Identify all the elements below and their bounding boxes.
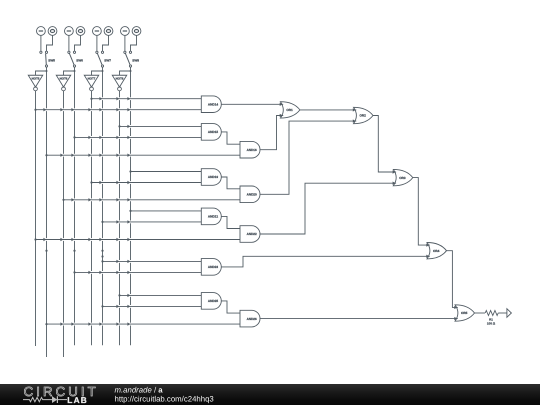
wire branch to NOT8 input	[120, 71, 131, 75]
wire hop at x=130.5	[127, 260, 130, 263]
node: branch to inverter NOT6	[74, 70, 76, 72]
junction on bus 8	[129, 170, 131, 172]
wire tap to AND19 in A	[131, 171, 202, 173]
junction on bus 7	[118, 294, 120, 296]
digital source "0" (input 4 low rail)	[132, 27, 141, 36]
switch SW7 (SPDT)	[96, 51, 111, 67]
wire from "0" source to switch throw 2	[75, 35, 81, 51]
wire hop at x=119.5	[116, 108, 119, 111]
wire tap to AND23 in A	[119, 260, 121, 263]
digital source "1" (input 1 high rail)	[37, 27, 46, 36]
svg-text:NOT5: NOT5	[32, 77, 40, 81]
wire hop at x=46.5	[43, 108, 46, 111]
wire hop at x=102.5	[99, 154, 102, 157]
output pin (digital probe)	[507, 309, 512, 318]
wire hop at x=102.5	[99, 136, 102, 139]
node: branch to inverter NOT7	[102, 70, 104, 72]
svg-text:NOT8: NOT8	[116, 77, 124, 81]
wire hop at x=91.5	[88, 154, 91, 157]
wire branch to NOT5 input	[36, 71, 47, 75]
wire from "1" source to switch throw 1	[40, 35, 42, 51]
wire OR1 output to OR2 input A	[300, 109, 356, 111]
wire NOT5 output down (bus 1)	[35, 91, 37, 346]
wire hop at x=91.5	[88, 271, 91, 274]
wire tap to AND14 in B	[46, 108, 48, 111]
svg-text:AND21: AND21	[208, 215, 218, 219]
wire tap to AND23 in B	[91, 271, 93, 274]
hop markers at OR1 inputs	[280, 103, 283, 106]
wire hop at x=119.5	[116, 271, 119, 274]
wire from "1" source to switch throw 1	[124, 35, 126, 51]
svg-text:SW6: SW6	[76, 59, 83, 63]
node: branch to inverter NOT8	[130, 70, 132, 72]
wire AND19 output to AND20 input A	[221, 177, 240, 189]
junction on bus 8	[129, 210, 131, 212]
wire hop at x=119.5	[116, 198, 119, 201]
wire hop at x=119.5	[116, 260, 119, 263]
node: branch to inverter NOT5	[46, 70, 48, 72]
svg-text:SW5: SW5	[48, 59, 55, 63]
wire tap to AND21 in A	[131, 210, 202, 212]
wire tap to AND16 in B	[63, 154, 65, 157]
AND gate AND26	[240, 310, 260, 327]
svg-text:AND16: AND16	[247, 148, 257, 152]
wire hop at x=130.5	[127, 220, 130, 223]
svg-text:LAB: LAB	[67, 395, 88, 405]
wire hop at x=119.5	[116, 181, 119, 184]
wire tap to AND15 in B	[91, 136, 93, 139]
wire tap to AND21 in B	[119, 221, 121, 224]
wire tap to AND22 in B	[46, 238, 48, 241]
wire hop at x=130.5	[127, 305, 130, 308]
digital source "1" (input 3 high rail)	[93, 27, 102, 36]
AND gate AND20	[240, 186, 260, 203]
wire tap to AND14 in A	[102, 97, 104, 100]
wire branch to NOT6 input	[64, 71, 75, 75]
svg-text:AND22: AND22	[247, 232, 257, 236]
wire AND14 output to OR1 input A	[221, 103, 283, 105]
svg-text:100 Ω: 100 Ω	[487, 321, 496, 325]
wire AND22 output to OR3 input B	[260, 183, 396, 234]
digital source "1" (input 4 high rail)	[121, 27, 130, 36]
wire hop at x=130.5	[127, 125, 130, 128]
wire hop at x=130.5	[127, 238, 130, 241]
OR gate OR1	[280, 102, 300, 118]
wire hop at x=63.5	[60, 238, 63, 241]
wire AND15 output to AND16 input A	[221, 132, 240, 144]
wire NOT8 output down (bus 7)	[119, 91, 121, 345]
inverter NOT6	[56, 75, 71, 91]
wire OR3 output to OR4 input A	[413, 178, 430, 246]
wire hop at x=130.5	[127, 97, 130, 100]
wire OR2 output to OR3 input A	[373, 116, 396, 173]
wire AND21 output to AND22 input A	[221, 216, 240, 228]
wire tap to AND20 in B	[74, 198, 76, 201]
svg-text:AND23: AND23	[208, 265, 218, 269]
svg-text:AND26: AND26	[247, 317, 257, 321]
wire OR4 output to OR5 input A	[447, 251, 458, 308]
wire switch pole down (bus 2)	[46, 67, 48, 357]
junction on bus 1	[34, 238, 36, 240]
hop markers at OR2 inputs	[353, 108, 356, 111]
node on bus 2	[45, 250, 47, 252]
wire hop at x=74.5	[71, 108, 74, 111]
CircuitLab logo	[23, 384, 99, 405]
wire hop at x=102.5	[99, 238, 102, 241]
wire hop at x=102.5	[99, 108, 102, 111]
switch SW8 (SPDT)	[124, 51, 139, 67]
wire hop at x=102.5	[99, 97, 102, 100]
wire hop at x=102.5	[99, 198, 102, 201]
svg-text:OR1: OR1	[286, 108, 293, 112]
AND gate AND25	[201, 293, 221, 310]
OR gate OR3	[393, 169, 413, 185]
OR gate OR2	[354, 107, 374, 123]
switch SW6 (SPDT)	[68, 51, 83, 67]
wire switch pole down (bus 8)	[130, 67, 132, 345]
svg-text:OR4: OR4	[433, 249, 440, 253]
AND gate AND14	[201, 96, 221, 113]
wire hop at x=102.5	[99, 322, 102, 325]
wire NOT6 output down (bus 3)	[63, 91, 65, 357]
AND gate AND15	[201, 124, 221, 141]
switch SW5 (SPDT)	[40, 51, 55, 67]
wire hop at x=74.5	[71, 238, 74, 241]
junction on bus 6	[101, 260, 103, 262]
junction on bus 4	[73, 136, 75, 138]
junction on bus 5	[90, 181, 92, 183]
wire hop at x=74.5	[71, 322, 74, 325]
wire hop at x=119.5	[116, 220, 119, 223]
wire tap to AND25 in B	[119, 305, 121, 308]
wire from "1" source to switch throw 1	[96, 35, 98, 51]
svg-text:http://circuitlab.com/c24hhq3: http://circuitlab.com/c24hhq3	[115, 394, 214, 403]
wire hop at x=91.5	[88, 136, 91, 139]
node on bus 6	[101, 255, 103, 257]
wire switch pole down (bus 6)	[102, 67, 104, 345]
svg-text:SW8: SW8	[132, 59, 139, 63]
wire hop at x=130.5	[127, 322, 130, 325]
footer bar	[0, 384, 540, 405]
wire from "0" source to switch throw 2	[47, 35, 53, 51]
AND gate AND21	[201, 208, 221, 225]
wire tap to AND19 in B	[102, 181, 104, 184]
wire hop at x=130.5	[127, 108, 130, 111]
wire hop at x=130.5	[127, 198, 130, 201]
hop markers at OR4 inputs	[426, 243, 429, 246]
wire hop at x=91.5	[88, 108, 91, 111]
wire hop at x=91.5	[88, 198, 91, 201]
wire R1 to output pin	[498, 312, 507, 314]
wire hop at x=119.5	[116, 154, 119, 157]
junction on bus 7	[118, 125, 120, 127]
wire hop at x=119.5	[116, 97, 119, 100]
wire hop at x=74.5	[71, 154, 74, 157]
digital source "0" (input 3 low rail)	[104, 27, 113, 36]
wire AND23 output to OR4 input B	[221, 256, 429, 267]
wire hop at x=130.5	[127, 154, 130, 157]
wire hop at x=119.5	[116, 238, 119, 241]
AND gate AND19	[201, 169, 221, 186]
wire AND16 output to OR1 input B	[260, 116, 283, 150]
wire hop at x=74.5	[71, 198, 74, 201]
wire switch pole down (bus 4)	[74, 67, 76, 345]
wire AND25 output to AND26 input A	[221, 301, 240, 313]
digital source "1" (input 2 high rail)	[65, 27, 74, 36]
inverter NOT5	[28, 75, 43, 91]
svg-text:OR2: OR2	[359, 114, 366, 118]
junction on bus 2	[45, 323, 47, 325]
svg-text:AND20: AND20	[247, 193, 257, 197]
wire hop at x=46.5	[43, 238, 46, 241]
wire hop at x=91.5	[88, 322, 91, 325]
wire tap to AND25 in A	[130, 294, 132, 297]
OR gate OR4	[427, 243, 447, 259]
hop markers at OR3 inputs	[393, 170, 396, 173]
hop markers at OR5 inputs	[454, 306, 457, 309]
AND gate AND23	[201, 259, 221, 276]
wire hop at x=130.5	[127, 136, 130, 139]
junction on bus 6	[101, 221, 103, 223]
svg-text:SW7: SW7	[104, 59, 111, 63]
wire from "0" source to switch throw 2	[103, 35, 109, 51]
wire hop at x=91.5	[88, 238, 91, 241]
wire tap to AND15 in A	[130, 125, 132, 128]
junction on bus 3	[62, 199, 64, 201]
wire hop at x=130.5	[127, 181, 130, 184]
AND gate AND22	[240, 226, 260, 243]
junction on bus 4	[73, 271, 75, 273]
node on bus 6	[101, 250, 103, 252]
wire hop at x=119.5	[116, 136, 119, 139]
wire hop at x=102.5	[99, 181, 102, 184]
svg-text:NOT6: NOT6	[60, 77, 68, 81]
inverter NOT8	[112, 75, 127, 91]
wire from "1" source to switch throw 1	[68, 35, 70, 51]
wire NOT7 output down (bus 5)	[91, 91, 93, 345]
junction on bus 2	[45, 154, 47, 156]
svg-text:AND19: AND19	[208, 175, 218, 179]
wire OR5 output to R1	[475, 312, 486, 314]
wire hop at x=119.5	[116, 305, 119, 308]
wire from "0" source to switch throw 2	[131, 35, 137, 51]
wire branch to NOT7 input	[92, 71, 103, 75]
wire AND26 output to OR5 input B	[260, 318, 458, 320]
digital source "0" (input 1 low rail)	[48, 27, 57, 36]
junction on bus 5	[90, 98, 92, 100]
resistor R1 100 Ohm	[485, 311, 498, 326]
junction on bus 6	[101, 305, 103, 307]
wire hop at x=130.5	[127, 271, 130, 274]
svg-text:m.andrade / a: m.andrade / a	[115, 385, 164, 394]
OR gate OR5	[455, 305, 475, 321]
junction on bus 1	[34, 109, 36, 111]
wire hop at x=119.5	[116, 322, 119, 325]
svg-text:AND25: AND25	[208, 299, 218, 303]
digital source "0" (input 2 low rail)	[76, 27, 85, 36]
wire hop at x=63.5	[60, 108, 63, 111]
svg-text:OR5: OR5	[461, 311, 468, 315]
wire hop at x=63.5	[60, 154, 63, 157]
svg-text:OR3: OR3	[399, 176, 406, 180]
wire hop at x=130.5	[127, 294, 130, 297]
wire AND20 output to OR2 input B	[260, 121, 356, 194]
wire hop at x=63.5	[60, 322, 63, 325]
node on bus 4	[73, 250, 75, 252]
wire tap to AND26 in B	[63, 323, 65, 326]
svg-text:NOT7: NOT7	[88, 77, 96, 81]
AND gate AND16	[240, 141, 260, 158]
svg-text:AND15: AND15	[208, 130, 218, 134]
svg-text:AND14: AND14	[208, 102, 218, 106]
wire hop at x=102.5	[99, 271, 102, 274]
inverter NOT7	[84, 75, 99, 91]
